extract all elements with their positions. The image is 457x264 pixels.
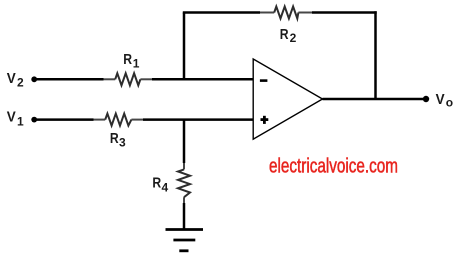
label V2 <box>7 70 24 90</box>
wire R4 bottom lead to ground <box>183 203 186 230</box>
svg-text:electricalvoice.com: electricalvoice.com <box>269 155 398 178</box>
wire feedback top rail right segment <box>312 11 377 14</box>
svg-text:o: o <box>446 95 453 109</box>
resistor R2 <box>260 12 312 14</box>
svg-text:R: R <box>280 26 289 43</box>
label R2 <box>280 26 297 45</box>
label R1 <box>123 51 140 70</box>
wire op-amp output to Vo <box>323 98 427 101</box>
wire V2 to R1 <box>34 78 103 81</box>
resistor R4 <box>183 163 185 203</box>
node V2 input terminal dot <box>31 76 37 82</box>
resistor R3 <box>94 119 144 121</box>
svg-text:4: 4 <box>162 181 169 195</box>
wire R3 right lead to op-amp non-inverting input <box>143 118 254 121</box>
svg-text:3: 3 <box>119 136 126 150</box>
svg-text:V: V <box>7 70 16 87</box>
node Vo output terminal dot <box>423 96 429 102</box>
op-amp inverting pin minus sign <box>260 79 268 82</box>
svg-text:R: R <box>123 51 132 68</box>
label R4 <box>152 174 168 194</box>
wire V1 to R3 <box>34 118 93 121</box>
op-amp U1 <box>253 59 322 139</box>
op-amp non-inverting pin plus sign <box>261 116 269 124</box>
wire feedback top rail left segment <box>183 11 260 14</box>
svg-text:R: R <box>110 130 119 147</box>
label Vo <box>436 91 454 109</box>
svg-text:1: 1 <box>133 57 140 71</box>
svg-text:V: V <box>436 91 445 108</box>
svg-text:2: 2 <box>17 76 24 90</box>
wire non-inverting node down to R4 <box>183 120 186 163</box>
wire R1 right lead to op-amp inverting input <box>152 78 254 81</box>
label V1 <box>7 109 24 129</box>
svg-text:V: V <box>7 109 16 126</box>
label R3 <box>110 130 126 150</box>
resistor R1 <box>104 78 153 80</box>
svg-text:R: R <box>152 174 161 191</box>
ground <box>166 230 204 251</box>
wire feedback right vertical down to output <box>374 11 377 99</box>
svg-text:2: 2 <box>290 31 297 45</box>
wire feedback junction vertical (inverting node up to R2 rail) <box>183 13 186 80</box>
svg-text:1: 1 <box>17 114 24 128</box>
node V1 input terminal dot <box>31 117 37 123</box>
